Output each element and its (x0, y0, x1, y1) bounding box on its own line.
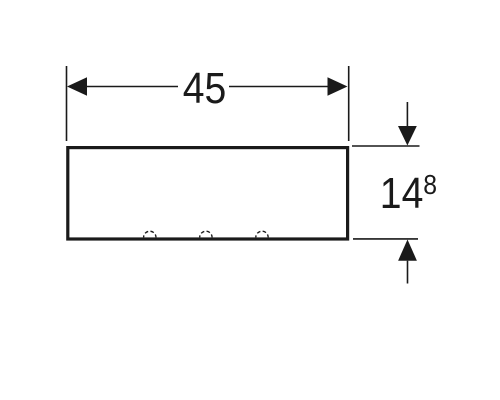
body rectangle (shelf front view) (68, 148, 348, 239)
height dimension: bottom extension line (353, 238, 418, 240)
width dimension: left extension line (66, 66, 68, 141)
height dimension: top extension line (352, 145, 420, 147)
width dimension line left segment (85, 86, 178, 88)
svg-text:14: 14 (380, 169, 424, 217)
height dimension top arrowhead (down) (398, 126, 417, 146)
svg-text:8: 8 (423, 169, 437, 201)
mount clip arc 2 (dashed) (200, 231, 212, 237)
width dimension line right segment (229, 86, 330, 88)
width dimension left arrowhead (67, 77, 87, 95)
mount clip arc 3 (dashed) (256, 231, 268, 237)
height dimension bottom arrow shaft (407, 261, 409, 284)
mount clip arc 1 (dashed) (144, 231, 156, 237)
svg-text:45: 45 (183, 64, 227, 112)
width dimension right arrowhead (328, 77, 348, 95)
width dimension: right extension line (348, 66, 350, 141)
height dimension bottom arrowhead (up) (398, 240, 417, 261)
height dimension top arrow shaft (406, 102, 408, 127)
